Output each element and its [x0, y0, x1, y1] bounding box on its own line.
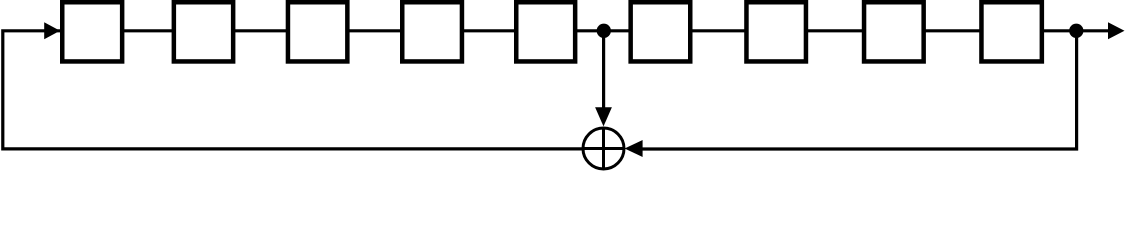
register stage box 3 — [288, 2, 347, 61]
arrowhead: output (right edge) — [1108, 22, 1125, 39]
register stage box 5 — [516, 2, 575, 61]
arrowhead: down into XOR top — [595, 107, 612, 126]
wire: feedback path left (XOR output, bottom-left, up to register input) — [3, 31, 624, 149]
wire: main shift-register chain (horizontal, segments between boxes) — [57, 29, 1109, 32]
register stage box 4 — [402, 2, 462, 61]
register stage box 1 — [62, 2, 122, 61]
register stage box 6 — [631, 2, 691, 61]
register stage box 8 — [864, 2, 924, 61]
wire: feedback path right (output node down and left to XOR right input) — [641, 31, 1077, 149]
register stage box 9 — [981, 2, 1041, 61]
register stage box 7 — [746, 2, 806, 61]
arrowhead: into register stage 1 — [44, 22, 60, 39]
wire: tap line down from node A to XOR top input — [602, 31, 605, 109]
node B: output junction dot after stage 9 — [1069, 24, 1083, 38]
register stage box 2 — [174, 2, 233, 61]
XOR gate (circle with plus) — [583, 128, 625, 170]
node A: tap junction dot after stage 5 — [597, 24, 611, 38]
arrowhead: left into XOR right input — [625, 140, 643, 157]
